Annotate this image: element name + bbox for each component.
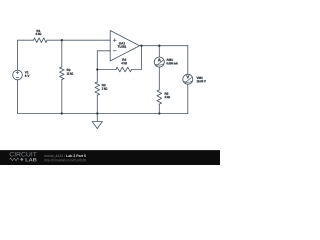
wire R2 column upper <box>61 40 63 67</box>
footer url <box>44 159 85 162</box>
label R3 value <box>102 87 107 89</box>
node dot R2 bottom <box>61 112 63 114</box>
node dot R2 top <box>61 39 63 41</box>
wire feedback column upper <box>96 51 98 82</box>
label op-amp OA1 part TL081 <box>118 45 126 47</box>
wire op-amp inverting input <box>97 50 110 52</box>
resistor R3 <box>95 82 100 95</box>
resistor R2 <box>60 67 65 79</box>
label AM1 name <box>166 59 172 61</box>
resistor R5 <box>157 90 162 104</box>
wire AM1 column upper <box>158 46 160 57</box>
voltmeter dial and needle <box>184 78 192 83</box>
footer bar <box>0 150 220 165</box>
wire ground stub <box>96 114 98 122</box>
op-amp OA1 <box>110 31 139 62</box>
label AM1 reading <box>167 62 178 64</box>
resistor R1 <box>34 38 48 43</box>
V1 minus symbol <box>16 77 19 79</box>
ground <box>92 122 102 129</box>
node dot op-amp output <box>140 45 142 47</box>
voltmeter VM1 circle <box>183 74 193 84</box>
label R3 name <box>102 84 106 86</box>
CircuitLab logo diamond <box>20 158 23 161</box>
label op-amp OA1 name <box>119 42 125 44</box>
label R2 value <box>67 72 73 74</box>
label V1 value <box>25 75 30 77</box>
wire V1 bottom and bottom rail <box>18 80 188 114</box>
wire VM1 column upper <box>187 46 189 74</box>
label R4 name <box>122 59 126 61</box>
wire output rail <box>140 45 188 47</box>
V1 plus symbol <box>16 71 19 74</box>
wire VM1 to bottom rail <box>187 84 189 113</box>
label R4 value <box>121 62 127 64</box>
label R5 value <box>165 96 170 98</box>
CircuitLab logo resistor zigzag <box>10 158 19 161</box>
wire R4 right lead up to output <box>132 46 142 70</box>
label VM1 reading <box>197 80 206 82</box>
ammeter AM1 circle <box>154 57 164 67</box>
resistor R4 <box>116 67 132 72</box>
wire R3 to bottom rail <box>96 95 98 113</box>
CircuitLab logo word LAB <box>26 158 37 161</box>
wire R5 to bottom rail <box>158 104 160 113</box>
ammeter letter A <box>158 58 161 61</box>
label R1 value <box>36 33 42 35</box>
footer title schematic name <box>66 154 86 157</box>
wire R2 column lower <box>61 80 63 114</box>
node dot R5 bottom <box>158 112 160 114</box>
label R1 name <box>37 30 41 32</box>
op-amp minus input symbol <box>113 50 116 52</box>
label V1 name <box>25 71 29 73</box>
wire AM1 to R5 <box>158 67 160 90</box>
node dot ground junction <box>96 112 98 114</box>
voltage source V1 circle <box>13 70 23 80</box>
label R2 name <box>67 69 71 71</box>
node dot feedback junction <box>96 68 98 70</box>
footer title user id <box>44 154 65 157</box>
CircuitLab logo wordmark CIRCUIT <box>10 152 37 156</box>
node dot AM1 branch <box>158 45 160 47</box>
op-amp plus input symbol <box>113 39 116 42</box>
wire R1 to op-amp + input <box>47 39 110 41</box>
ammeter dial and needle <box>155 60 163 65</box>
label R5 name <box>165 93 169 95</box>
label VM1 name <box>197 77 203 79</box>
wire R4 left lead from feedback node <box>97 69 116 71</box>
wire top-left from V1 up and right to R1 <box>18 40 34 70</box>
voltmeter letter V <box>186 75 189 78</box>
